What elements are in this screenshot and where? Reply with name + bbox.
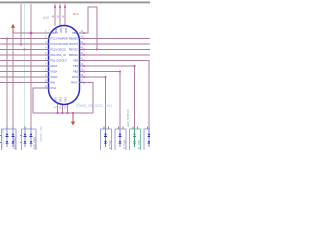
left bus wire y=60.5 xyxy=(0,60,50,62)
svg-text:PB9: PB9 xyxy=(72,32,77,35)
ground arrow down at x=73 xyxy=(71,113,75,126)
diode box D3 bottom-right xyxy=(101,126,112,151)
diode box D4 bottom-right xyxy=(115,126,126,151)
junction dot (7,38.5) xyxy=(6,38,8,40)
right pin stubs xyxy=(79,33,84,83)
svg-text:PB5: PB5 xyxy=(73,60,78,63)
wire lowest left pin y=88 corner to bottom bus xyxy=(33,88,50,113)
wire vertical x=31 junction A down to diode box D2 xyxy=(30,33,32,129)
svg-text:23: 23 xyxy=(64,107,67,110)
svg-text:PA1: PA1 xyxy=(52,87,57,90)
svg-text:24: 24 xyxy=(62,16,65,19)
top pin names vertical xyxy=(54,28,67,33)
svg-text:PB6/I2C: PB6/I2C xyxy=(69,54,79,57)
dot (62.5,113) xyxy=(62,112,64,114)
wire vertical teal net x=24.5 xyxy=(24,4,26,129)
right bus wire y=44 xyxy=(84,43,150,45)
top supply wire x=60 xyxy=(59,4,61,26)
svg-text:VDD: VDD xyxy=(59,28,62,33)
svg-text:PA14: PA14 xyxy=(71,82,78,85)
left bus wire y=66 xyxy=(0,65,50,67)
wire right pin7 y=66 bend down to box D5 xyxy=(84,66,135,129)
svg-text:PB3: PB3 xyxy=(73,71,78,74)
junction dot (121,71.5) xyxy=(119,71,121,73)
svg-text:VSS: VSS xyxy=(60,97,63,102)
diode box D2 bottom-left second xyxy=(20,126,36,151)
left bus wire y=71.5 xyxy=(0,71,50,73)
junction A dot (31,33) xyxy=(30,32,32,34)
svg-text:LED_STATUS: LED_STATUS xyxy=(126,109,130,127)
left pin numbers xyxy=(45,30,48,88)
power flag arrow up at x=13 xyxy=(11,24,15,33)
svg-text:USB_DM_LINE: USB_DM_LINE xyxy=(1,128,5,148)
svg-text:U10: U10 xyxy=(43,16,49,20)
svg-text:D_TVS3: D_TVS3 xyxy=(110,140,112,149)
svg-text:48: 48 xyxy=(52,16,55,19)
top pin numbers xyxy=(52,16,65,19)
wire right pin6 y=60.5 bend down to box D6 xyxy=(84,61,149,130)
left bus wire y=77 xyxy=(0,76,50,78)
left bus wire y=55 xyxy=(0,54,50,56)
right bus wire y=38.5 xyxy=(84,38,150,40)
wire right pin8 y=71.5 bend down to box D4 xyxy=(84,72,120,130)
dot (65,7) xyxy=(64,6,66,8)
svg-text:D_TVS5: D_TVS5 xyxy=(139,140,141,149)
wire vertical x=13 arrow stem down to diode box D1 pin xyxy=(12,33,14,129)
svg-text:VDD: VDD xyxy=(54,28,57,33)
junction dot (106,77) xyxy=(105,76,107,78)
svg-text:PC15-OSC32: PC15-OSC32 xyxy=(51,49,67,52)
svg-text:ESD_USB1: ESD_USB1 xyxy=(14,136,16,149)
svg-text:VDDA: VDDA xyxy=(51,76,58,79)
bottom pin names vertical xyxy=(55,97,68,102)
svg-text:PA15: PA15 xyxy=(72,76,79,79)
junction dot (24.5,49.5) xyxy=(24,49,26,51)
left pin stubs and numbers xyxy=(45,33,52,88)
wire vertical net V1 from border x=21 xyxy=(20,4,22,45)
svg-text:D_TVS4: D_TVS4 xyxy=(124,140,126,149)
wire vertical net x=31 from border to junction A xyxy=(30,4,32,33)
svg-text:STM32_OR_GD32_F103: STM32_OR_GD32_F103 xyxy=(76,104,112,108)
top supply wire x=55 xyxy=(54,4,56,26)
wire right pin10 y=82.5 down to bus xyxy=(84,83,93,114)
svg-text:VDD: VDD xyxy=(64,28,67,33)
junction dot (21,44.5) xyxy=(20,44,22,46)
svg-text:SWDIO_SIG: SWDIO_SIG xyxy=(39,126,43,142)
wire from power arrow to junction A y=33 xyxy=(13,32,50,34)
svg-text:47: 47 xyxy=(54,107,57,110)
dot (55,7) xyxy=(54,6,56,8)
top supply wire x=65 xyxy=(64,4,66,26)
diode box D1 bottom-left xyxy=(0,126,16,151)
left bus wire y=44 xyxy=(0,43,50,45)
wire right pin1 loop y=33 to top then down to pin4 wire xyxy=(84,7,97,50)
svg-text:VSSA: VSSA xyxy=(51,71,58,74)
sheet border top xyxy=(0,1,150,4)
right bus wire y=49.5 xyxy=(84,49,150,51)
svg-text:BOOT0: BOOT0 xyxy=(70,43,79,46)
svg-text:ESD_USB2: ESD_USB2 xyxy=(34,136,36,149)
svg-text:VSS: VSS xyxy=(65,97,68,102)
right bus wire y=55 xyxy=(84,54,150,56)
diode box D6 bottom-right xyxy=(144,126,155,151)
svg-text:35: 35 xyxy=(59,107,62,110)
right pin numbers xyxy=(81,30,84,82)
bottom pin numbers xyxy=(54,107,67,110)
svg-text:PB4: PB4 xyxy=(73,65,78,68)
left pin names inside IC xyxy=(51,32,69,90)
svg-text:NRST: NRST xyxy=(51,65,58,68)
dot (67.5,113) xyxy=(67,112,69,114)
junction dot (136,66) xyxy=(134,65,136,67)
wire vertical x=7 from y=38.5 down to diode box D1 xyxy=(6,39,8,130)
bottom ground bus y=113 xyxy=(33,112,93,114)
right pin end dots xyxy=(83,32,85,83)
wire right pin9 y=77 bend down to box D3 xyxy=(84,77,106,129)
svg-text:PC14-OSC32IN: PC14-OSC32IN xyxy=(51,43,69,46)
right pin names inside IC xyxy=(69,32,79,85)
junction dot (73,113) xyxy=(72,112,74,114)
bottom IC pin stubs x=57.5,62.5,67.5 xyxy=(57,103,59,113)
svg-text:PB7/I2C: PB7/I2C xyxy=(69,49,79,52)
svg-text:PC13-TAMPER: PC13-TAMPER xyxy=(51,38,69,41)
dot (57.5,113) xyxy=(57,112,59,114)
svg-text:MCU: MCU xyxy=(73,12,79,16)
svg-text:PA0: PA0 xyxy=(51,82,56,85)
svg-text:36: 36 xyxy=(57,16,60,19)
junction dot (97,49.5) xyxy=(96,49,98,51)
left bus wire y=38.5 xyxy=(0,38,50,40)
dot (60,7) xyxy=(59,6,61,8)
svg-text:PB8/BO: PB8/BO xyxy=(69,38,78,41)
left bus wire y=82.5 xyxy=(0,82,50,84)
svg-text:VSS: VSS xyxy=(55,97,58,102)
op IC U2 body outline xyxy=(49,26,80,105)
diode box D5 bottom-right xyxy=(130,126,141,151)
left bus wire y=49.5 xyxy=(0,49,50,51)
svg-text:PD1-OSCOUT: PD1-OSCOUT xyxy=(51,60,68,63)
svg-text:PD0-OSC_IN: PD0-OSC_IN xyxy=(51,54,66,57)
